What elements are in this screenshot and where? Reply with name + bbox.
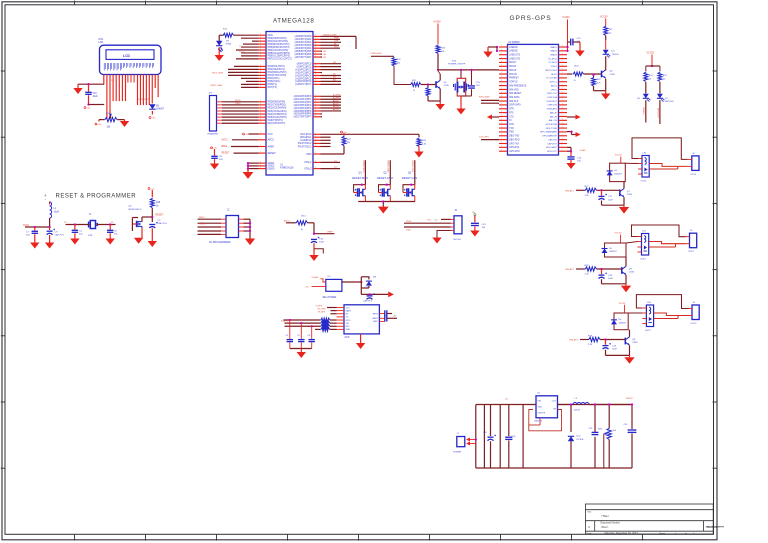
IC U5 GPS module body	[344, 305, 379, 334]
resistor R22 to ground	[426, 87, 430, 96]
svg-text:RESET-GPS: RESET-GPS	[411, 161, 413, 173]
ground at J6	[432, 238, 441, 244]
wire PA0 long with label RESET-GSM	[321, 35, 357, 37]
capacitor C8 bypass	[211, 147, 213, 149]
svg-text:OUT1: OUT1	[690, 174, 697, 176]
svg-text:SIM-CLK: SIM-CLK	[509, 101, 519, 103]
svg-text:1: 1	[562, 107, 563, 109]
svg-text:PB7(OC2/OC1C/PC7): PB7(OC2/OC1C/PC7)	[268, 58, 292, 61]
svg-text:1: 1	[315, 43, 316, 45]
svg-text:1: 1	[562, 72, 563, 74]
svg-text:VRTC: VRTC	[551, 89, 557, 91]
wire bus PD group left	[234, 65, 259, 67]
svg-text:1: 1	[315, 62, 316, 64]
relay LS3 pins	[642, 308, 646, 324]
source rail of reset transistors	[358, 201, 415, 203]
svg-text:1: 1	[260, 48, 261, 50]
svg-text:RESET-GSM: RESET-GSM	[377, 176, 394, 180]
svg-text:RFIN: RFIN	[373, 313, 379, 315]
svg-text:VBAT: VBAT	[346, 309, 352, 312]
wire R14 to C16 node	[308, 222, 315, 224]
zener diode D9 3V6A	[218, 35, 220, 41]
wire Q5 emitter to ground	[439, 89, 441, 101]
svg-text:R18: R18	[156, 202, 161, 204]
svg-text:VCC5V: VCC5V	[619, 303, 627, 305]
svg-text:1: 1	[562, 45, 563, 47]
svg-text:AVCC: AVCC	[284, 220, 290, 223]
capacitor C19 base relay 3	[605, 340, 607, 345]
capacitor C21 CAP-POL at U3	[368, 293, 370, 295]
drain connection Q1	[364, 185, 366, 190]
dual mosfet power on-off switch	[460, 70, 462, 78]
svg-text:TXD: TXD	[509, 128, 514, 130]
transistor Q2 RESET-GSM	[389, 160, 391, 185]
svg-text:1: 1	[501, 149, 502, 151]
capacitor C10	[88, 84, 90, 91]
svg-text:NETLIGHT: NETLIGHT	[656, 108, 658, 119]
svg-text:LM2576: LM2576	[534, 421, 543, 423]
ground below power switch	[460, 96, 462, 109]
ISP right wires to ground	[239, 219, 244, 231]
transistor Q3 RESET-GPS	[414, 160, 416, 185]
wire loop relay LS3 to connector	[636, 295, 688, 309]
svg-text:SPK1P: SPK1P	[509, 70, 517, 72]
wire to R10 R11	[645, 66, 647, 71]
ground below D9	[215, 55, 224, 61]
title block	[585, 504, 713, 534]
wire XTAL2 net X2	[321, 168, 341, 170]
svg-text:GPS-RXDB: GPS-RXDB	[545, 124, 557, 126]
power supply top rail	[476, 404, 536, 406]
ground below C5	[106, 239, 115, 245]
svg-text:A-GPS1: A-GPS1	[333, 96, 341, 99]
svg-text:1: 1	[260, 161, 261, 163]
svg-text:1: 1	[562, 65, 563, 67]
relay LS3 coil box	[646, 305, 653, 327]
LED D3 TXLED	[605, 40, 607, 50]
svg-text:GPS-VPCI: GPS-VPCI	[509, 151, 520, 153]
svg-text:1: 1	[260, 33, 261, 35]
vertical bus line 3	[499, 405, 501, 469]
svg-text:BAL-IP: BAL-IP	[550, 111, 557, 114]
svg-text:MIC1N: MIC1N	[509, 66, 516, 68]
svg-text:C945: C945	[444, 85, 450, 87]
IC U1 ATMEGA128 body	[266, 32, 313, 176]
connector JP1 pins and PE wires	[217, 102, 223, 123]
wire relay LS3 contacts to J4	[654, 313, 688, 316]
off-page arrow right GSM antenna	[567, 116, 576, 118]
svg-text:10uF: 10uF	[608, 199, 614, 201]
transistor Q7 relay 1	[619, 189, 621, 196]
frame section ticks top and bottom	[75, 1, 643, 541]
ISP left wires	[221, 219, 226, 234]
svg-text:MCU-B: MCU-B	[454, 239, 462, 241]
flyback diode D relay 1	[607, 171, 613, 176]
svg-text:1: 1	[315, 100, 316, 102]
svg-text:C945: C945	[610, 74, 616, 76]
svg-text:TXD1-GSM: TXD1-GSM	[212, 73, 223, 75]
svg-text:C945: C945	[629, 272, 635, 274]
svg-text:PWR-GSM: PWR-GSM	[371, 53, 382, 55]
resistor array RP1	[320, 318, 330, 322]
svg-text:DBG-RXD: DBG-RXD	[509, 139, 520, 141]
flyback diode loop relay 2	[605, 243, 627, 257]
svg-text:CAP-POL: CAP-POL	[55, 234, 65, 237]
svg-text:RXD1: RXD1	[406, 221, 412, 223]
wire crystal to X2	[97, 224, 116, 226]
svg-text:1: 1	[562, 80, 563, 82]
ground below Q4	[141, 228, 143, 238]
svg-text:1: 1	[562, 134, 563, 136]
svg-text:XTAL1: XTAL1	[304, 161, 312, 164]
svg-text:1: 1	[562, 92, 563, 94]
potentiometer R15 10k	[110, 116, 112, 119]
IC U4 SIM548 GPRS-GPS body	[508, 44, 559, 155]
svg-text:POWER-ON/OFF: POWER-ON/OFF	[448, 64, 466, 66]
svg-text:1: 1	[562, 149, 563, 151]
LCD middle short pins	[128, 75, 134, 83]
svg-text:1: 1	[315, 145, 316, 147]
capacitor C22b output	[594, 405, 596, 433]
IC U4 right pin numbers	[562, 45, 563, 151]
wire node to GND label	[314, 233, 335, 235]
svg-text:Q1: Q1	[358, 171, 362, 174]
svg-text:ADC0: ADC0	[551, 84, 558, 87]
svg-text:1: 1	[260, 138, 261, 140]
ground at LCD left	[77, 84, 79, 88]
svg-text:VCC5V: VCC5V	[647, 53, 655, 55]
svg-text:AVCC: AVCC	[268, 139, 275, 142]
svg-text:1: 1	[562, 142, 563, 144]
IC U1 right pin stubs	[313, 36, 321, 168]
svg-text:1: 1	[501, 107, 502, 109]
svg-text:VANT: VANT	[372, 317, 378, 320]
svg-text:ADC2: ADC2	[333, 99, 339, 102]
svg-text:PWRKEY: PWRKEY	[509, 78, 519, 80]
wire TXD-GPS row	[481, 139, 499, 141]
IC U1 left pin numbers	[260, 33, 261, 168]
relay LS2 pins	[638, 237, 642, 253]
ground below C4	[70, 239, 79, 245]
svg-text:SPK1N: SPK1N	[509, 74, 517, 76]
svg-text:STATUS: STATUS	[509, 81, 518, 84]
power supply bottom rail	[476, 467, 632, 469]
svg-text:OUT1: OUT1	[641, 181, 648, 183]
wire base to Q7 relay 1	[597, 189, 620, 191]
svg-text:VBAT3: VBAT3	[550, 54, 558, 57]
svg-text:DISP-RST: DISP-RST	[547, 101, 558, 103]
wire PG rows right	[321, 133, 420, 135]
svg-text:1: 1	[501, 57, 502, 59]
svg-text:1: 1	[260, 112, 261, 114]
svg-text:1: 1	[562, 53, 563, 55]
capacitor C17 base relay 1	[601, 190, 603, 195]
wire X1 to crystal	[66, 224, 90, 226]
wire LCD pin1 to C10 node	[78, 83, 104, 85]
svg-text:V-GSM: V-GSM	[433, 21, 440, 23]
svg-text:Title:: Title:	[587, 511, 592, 514]
svg-text:RXD1-GSM: RXD1-GSM	[211, 85, 223, 87]
transistor Q5 power driver	[435, 81, 437, 88]
svg-text:1: 1	[315, 103, 316, 105]
svg-text:1: 1	[315, 55, 316, 57]
wire AVCC node	[25, 226, 50, 228]
hook wire at C16	[314, 249, 323, 254]
GND bundle wires	[248, 162, 259, 164]
svg-text:1: 1	[562, 126, 563, 128]
capacitor C15 104 at power switch	[471, 70, 473, 85]
IC U5 left pin stubs	[337, 308, 345, 330]
svg-text:1: 1	[562, 138, 563, 140]
+5V below D8	[149, 117, 151, 119]
resistor R17 1M pullup	[341, 131, 343, 133]
svg-text:HEADER8: HEADER8	[208, 133, 219, 136]
relay LS1 coil box	[642, 156, 649, 178]
junction at C10 top	[87, 83, 89, 85]
VCC +5v node	[243, 133, 245, 135]
svg-text:1: 1	[501, 80, 502, 82]
svg-text:1: 1	[260, 100, 261, 102]
capacitor C7 104	[34, 227, 36, 231]
svg-text:ON/OFF: ON/OFF	[538, 413, 546, 415]
svg-text:GPS-TIMEMARK: GPS-TIMEMARK	[540, 131, 557, 134]
source wire of Q3	[414, 196, 416, 202]
svg-text:1: 1	[260, 118, 261, 120]
wire XTAL1 net X1	[321, 161, 341, 163]
wire bus PA right	[321, 38, 341, 40]
wire Q6 emitter	[605, 79, 607, 91]
connector J6 output	[692, 156, 699, 171]
svg-text:1N4007: 1N4007	[614, 173, 622, 175]
svg-text:V-GSM: V-GSM	[562, 17, 569, 19]
IC U4 left pin stubs	[499, 47, 508, 151]
svg-text:MOSI: MOSI	[239, 52, 245, 54]
wire Q7 collector relay 1	[623, 182, 625, 189]
svg-text:GND: GND	[538, 407, 543, 409]
svg-text:1: 1	[260, 74, 261, 76]
svg-text:LCD: LCD	[123, 54, 131, 58]
svg-text:1: 1	[260, 45, 261, 47]
vertical bus line 2	[483, 405, 485, 469]
svg-text:PD7(T2): PD7(T2)	[268, 86, 277, 89]
svg-text:1: 1	[562, 57, 563, 59]
wire Q8 collector relay 2	[625, 257, 627, 266]
svg-text:1: 1	[315, 142, 316, 144]
svg-text:1: 1	[562, 61, 563, 63]
svg-text:1: 1	[315, 95, 316, 97]
wire bus PB group left	[241, 37, 259, 39]
svg-text:LINEOUT1: LINEOUT1	[509, 55, 521, 57]
svg-text:TXD-GPS: TXD-GPS	[479, 136, 489, 138]
connector J4 output	[692, 305, 699, 320]
svg-text:EN: EN	[333, 77, 336, 79]
svg-text:1: 1	[562, 84, 563, 86]
svg-text:(AD7/INT7)PA7: (AD7/INT7)PA7	[295, 56, 312, 59]
off-page arrow right GPS antenna	[567, 131, 572, 133]
svg-text:1: 1	[260, 68, 261, 70]
svg-text:SIM-PRESENCE: SIM-PRESENCE	[509, 85, 527, 87]
inductor L2 100uH	[558, 404, 574, 406]
svg-text:GPRS-GPS: GPRS-GPS	[510, 15, 552, 22]
svg-text:LINEOUT2: LINEOUT2	[509, 58, 521, 60]
capacitor C16 CAP-POL	[311, 238, 317, 240]
resistor R9 1k	[604, 26, 608, 36]
svg-text:VCC5V: VCC5V	[600, 17, 608, 19]
svg-text:GPS-VCC: GPS-VCC	[547, 151, 557, 153]
frame section ticks left and right	[1, 71, 717, 468]
resistor R27 base relay 1	[585, 188, 597, 192]
svg-text:C945: C945	[632, 342, 638, 344]
svg-text:1: 1	[501, 126, 502, 128]
svg-text:1: 1	[315, 49, 316, 51]
svg-text:VCC: VCC	[346, 307, 351, 309]
svg-text:1: 1	[562, 130, 563, 132]
svg-text:VCAP: VCAP	[580, 149, 586, 152]
LCD pins	[104, 75, 158, 120]
svg-text:1: 1	[260, 132, 261, 134]
wire base to Q8 relay 2	[597, 268, 622, 270]
svg-text:1: 1	[315, 71, 316, 73]
svg-text:1: 1	[501, 103, 502, 105]
svg-text:VBAT2: VBAT2	[550, 50, 558, 53]
IC U4 left pin numbers	[501, 45, 502, 151]
svg-text:1: 1	[501, 49, 502, 51]
LCD module DS1 outline	[100, 45, 162, 74]
svg-text:OUT2: OUT2	[640, 259, 647, 261]
svg-text:OUT3: OUT3	[691, 323, 698, 325]
svg-text:1: 1	[501, 142, 502, 144]
svg-text:1: 1	[501, 138, 502, 140]
svg-text:1: 1	[562, 146, 563, 148]
svg-text:1: 1	[315, 52, 316, 54]
svg-text:DISP-D/A: DISP-D/A	[547, 96, 557, 99]
resistor R29 base relay 3	[588, 337, 600, 341]
svg-text:U4 SIM548: U4 SIM548	[508, 42, 520, 44]
svg-text:1: 1	[260, 109, 261, 111]
svg-text:DCD: DCD	[509, 124, 514, 126]
svg-text:XTAL2: XTAL2	[304, 167, 312, 170]
ground of reset transistors	[382, 202, 384, 207]
svg-text:RESET-MCU: RESET-MCU	[129, 209, 142, 211]
wire PWRKEY row	[438, 69, 499, 71]
svg-text:1: 1	[315, 109, 316, 111]
svg-text:RESET: RESET	[156, 215, 164, 217]
wire loop relay LS1 to connector	[632, 138, 688, 160]
svg-text:1: 1	[501, 88, 502, 90]
potentiometer wiper	[604, 433, 606, 435]
svg-text:LINEIN2: LINEIN2	[509, 51, 518, 53]
svg-text:TX-GPS: TX-GPS	[318, 312, 326, 314]
svg-text:1: 1	[260, 164, 261, 166]
drain connection Q2	[389, 185, 391, 190]
svg-text:RXD-GSM: RXD-GSM	[479, 97, 490, 99]
svg-text:ATMEGA128: ATMEGA128	[273, 18, 314, 25]
resistor R13 3.3k	[418, 134, 420, 137]
capacitor C18 base relay 2	[601, 269, 603, 274]
svg-text:POWER: POWER	[453, 451, 462, 453]
wire bus PF right	[321, 95, 342, 97]
wire VCAP node	[567, 146, 571, 148]
svg-text:GND3: GND3	[268, 167, 275, 170]
capacitor C24 final	[631, 405, 633, 430]
svg-text:RESET: RESET	[268, 152, 277, 155]
svg-text:TXD1: TXD1	[406, 229, 412, 231]
IC U1 right pin names	[294, 35, 312, 170]
svg-text:BUZZ: BUZZ	[551, 74, 557, 76]
capacitor C23 GPS ant	[384, 315, 386, 321]
resistor R19 10k	[436, 45, 440, 54]
svg-text:1: 1	[562, 115, 563, 117]
relay LS2 coil box	[642, 234, 649, 256]
svg-text:VCC: VCC	[268, 133, 273, 136]
wire TXD1 to J6	[404, 226, 451, 228]
svg-text:VCHG: VCHG	[551, 66, 558, 68]
svg-text:RESET-MCU: RESET-MCU	[362, 161, 364, 173]
svg-text:TXLED: TXLED	[612, 54, 619, 56]
svg-text:1: 1	[260, 54, 261, 56]
diode D12 freewheel	[570, 405, 572, 433]
svg-text:1: 1	[562, 68, 563, 70]
svg-text:1: 1	[562, 119, 563, 121]
svg-text:DBG-TXD: DBG-TXD	[509, 136, 520, 138]
svg-text:DCD: DCD	[334, 46, 339, 48]
ground below C9	[45, 243, 54, 249]
wire AVCC to R14	[286, 222, 296, 224]
LCD inner display rectangle	[106, 50, 154, 60]
svg-text:VC-MCU: VC-MCU	[548, 58, 557, 60]
svg-text:C: C	[588, 525, 590, 529]
svg-text:10uF: 10uF	[612, 349, 618, 351]
svg-text:AVCC: AVCC	[222, 139, 229, 142]
capacitor C4 27p	[74, 223, 76, 225]
svg-text:1: 1	[315, 77, 316, 79]
relay LS1 pins	[638, 159, 642, 175]
svg-text:1: 1	[501, 115, 502, 117]
resistor R11 1k	[658, 72, 662, 82]
svg-text:DIODE: DIODE	[577, 439, 584, 441]
ground below C20	[470, 231, 479, 237]
svg-text:1: 1	[501, 72, 502, 74]
svg-text:D4 D5 D6 D7: D4 D5 D6 D7	[138, 99, 151, 101]
svg-text:Date:: Date:	[587, 532, 593, 535]
svg-text:V-GPS: V-GPS	[316, 305, 323, 307]
svg-text:GPS-TXA: GPS-TXA	[509, 142, 519, 145]
svg-text:1M: 1M	[347, 142, 350, 144]
svg-text:1: 1	[260, 65, 261, 67]
svg-text:1: 1	[562, 49, 563, 51]
svg-text:1N4007: 1N4007	[609, 251, 617, 253]
diode D8 1N4007	[149, 104, 155, 109]
wire loop relay LS2 to connector	[632, 225, 686, 237]
svg-text:SCK: SCK	[239, 46, 244, 48]
svg-text:Saturday, November 30, 2013: Saturday, November 30, 2013	[605, 532, 639, 535]
mosfet body Q1	[356, 188, 358, 196]
transistor Q9 relay 3	[624, 338, 626, 345]
transistor Q8 relay 2	[621, 267, 623, 274]
svg-text:1: 1	[260, 80, 261, 82]
IC U4 right pin stubs	[559, 47, 568, 151]
svg-text:10uH: 10uH	[54, 211, 60, 213]
svg-text:1: 1	[562, 122, 563, 124]
junction PWRKEY node	[437, 69, 439, 71]
gate loop of Q1	[354, 185, 366, 193]
LED D4 STATUS	[645, 82, 647, 94]
svg-text:RESET-GSM: RESET-GSM	[387, 161, 389, 173]
IC U4 left pin names	[509, 47, 527, 153]
wire relay LS1 contacts to J6	[649, 164, 688, 167]
svg-text:RXD: RXD	[509, 132, 514, 134]
svg-text:1: 1	[315, 112, 316, 114]
